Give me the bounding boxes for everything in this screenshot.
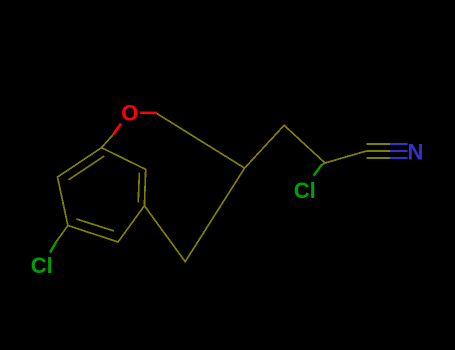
svg-text:N: N [407, 139, 423, 164]
svg-text:Cl: Cl [294, 178, 316, 203]
svg-text:Cl: Cl [31, 253, 53, 278]
svg-text:O: O [121, 100, 138, 125]
